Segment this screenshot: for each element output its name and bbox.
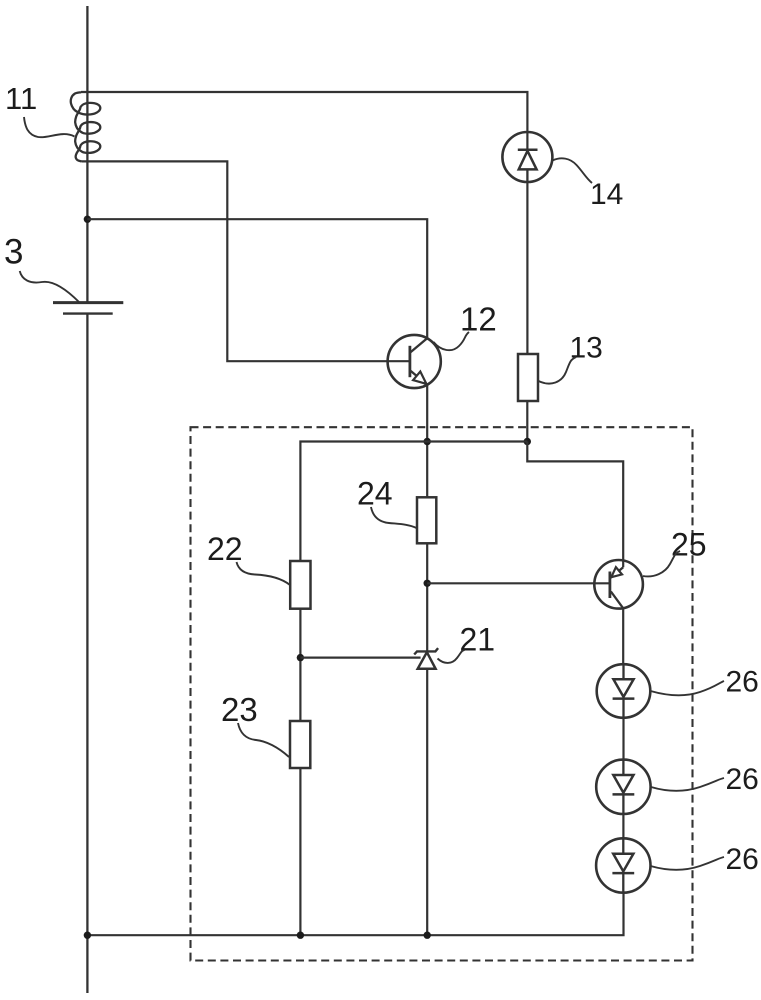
wire R24 to zener — [426, 543, 428, 651]
svg-text:24: 24 — [357, 476, 393, 512]
wire bottom rail — [87, 893, 623, 936]
leader line for 26 third — [651, 857, 725, 870]
leader line for 25 — [643, 551, 680, 576]
wire Q12 emitter down into box — [426, 385, 428, 497]
battery 3 long plate — [53, 301, 123, 304]
leader line for 21 — [438, 650, 465, 663]
leader line for 12 — [434, 332, 470, 350]
wire internal top rail — [300, 442, 527, 562]
leader line for 26 first — [651, 681, 725, 695]
svg-text:26: 26 — [726, 763, 759, 796]
transistor Q12 circle — [388, 335, 441, 388]
leader line for 3 — [20, 271, 79, 302]
transistor Q25 emitter arrow — [611, 567, 622, 577]
svg-text:26: 26 — [726, 843, 759, 876]
zener diode Z21 triangle — [418, 652, 436, 669]
LED D26b — [596, 760, 650, 814]
svg-text:26: 26 — [726, 666, 759, 699]
node dot zener tap — [297, 654, 304, 661]
node dot R13 / rail — [524, 438, 531, 445]
wire LED1 to LED2 — [622, 718, 624, 760]
svg-text:13: 13 — [570, 332, 603, 365]
LED D26c — [596, 838, 650, 892]
resistor R23 — [290, 721, 310, 768]
wire coil bottom to transistor 12 base — [82, 161, 410, 361]
wire tap to zener — [300, 656, 420, 658]
diode D14 circle — [502, 132, 552, 182]
diode D14 anode lead — [526, 169, 528, 182]
transistor Q25 emitter diagonal — [611, 567, 623, 577]
resistor R22 — [290, 561, 310, 609]
node dot base wire — [424, 580, 431, 587]
node dot Q12 emitter / rail — [424, 438, 431, 445]
resistor R13 — [518, 354, 538, 401]
svg-text:25: 25 — [671, 527, 707, 563]
svg-text:21: 21 — [460, 622, 496, 658]
battery 3 short plate — [63, 312, 113, 314]
transistor Q25 base bar — [609, 572, 612, 599]
wire node to Q25 emitter — [527, 442, 623, 568]
svg-text:22: 22 — [207, 531, 243, 567]
leader line for 11 — [24, 117, 75, 137]
wire diode 14 to resistor 13 — [526, 182, 528, 354]
wire zener to bottom rail — [426, 669, 428, 935]
svg-text:11: 11 — [5, 81, 37, 116]
wire top rail to diode 14 — [81, 92, 527, 150]
transistor Q12 emitter arrow — [413, 372, 426, 384]
transistor Q12 collector diagonal — [411, 338, 428, 352]
leader line for 23 — [238, 723, 289, 757]
leader line for 22 — [237, 562, 291, 585]
transistor Q25 circle — [594, 560, 643, 609]
transistor Q12 emitter diagonal — [411, 371, 428, 385]
LED D26a — [597, 664, 651, 718]
dashed box (driver block) — [191, 427, 693, 960]
resistor R24 — [417, 497, 436, 543]
node dot bottom R23 — [297, 932, 304, 939]
svg-text:23: 23 — [221, 691, 258, 728]
leader line for 14 — [553, 158, 593, 183]
node dot bottom zener — [424, 932, 431, 939]
wire main vertical lower — [86, 314, 88, 993]
wire R23 to bottom rail — [299, 768, 301, 935]
node junction dot on rail — [84, 216, 91, 223]
wire R22 to R23 — [299, 609, 301, 721]
node dot bottom left — [84, 932, 91, 939]
transistor Q12 base bar — [408, 346, 411, 377]
svg-text:14: 14 — [590, 178, 623, 211]
diode D14 triangle — [519, 151, 537, 170]
wire node to Q25 base — [427, 582, 610, 584]
zener diode Z21 cathode bar — [414, 648, 438, 654]
wire junction to Q12 collector — [87, 219, 427, 338]
svg-text:12: 12 — [460, 301, 497, 338]
svg-text:3: 3 — [4, 233, 23, 272]
leader line for 24 — [371, 507, 417, 528]
wire main vertical upper (battery positive rail) — [86, 6, 88, 302]
wire LED2 to LED3 — [622, 814, 624, 838]
leader line for 26 second — [651, 778, 724, 791]
wire Q25 collector to LED chain — [622, 608, 624, 664]
diode D14 cathode bar — [518, 148, 538, 151]
wire resistor 13 to node — [526, 401, 528, 442]
leader line for 13 — [539, 357, 577, 384]
inductor L11 coil — [71, 92, 101, 161]
transistor Q25 collector diagonal — [611, 592, 623, 609]
